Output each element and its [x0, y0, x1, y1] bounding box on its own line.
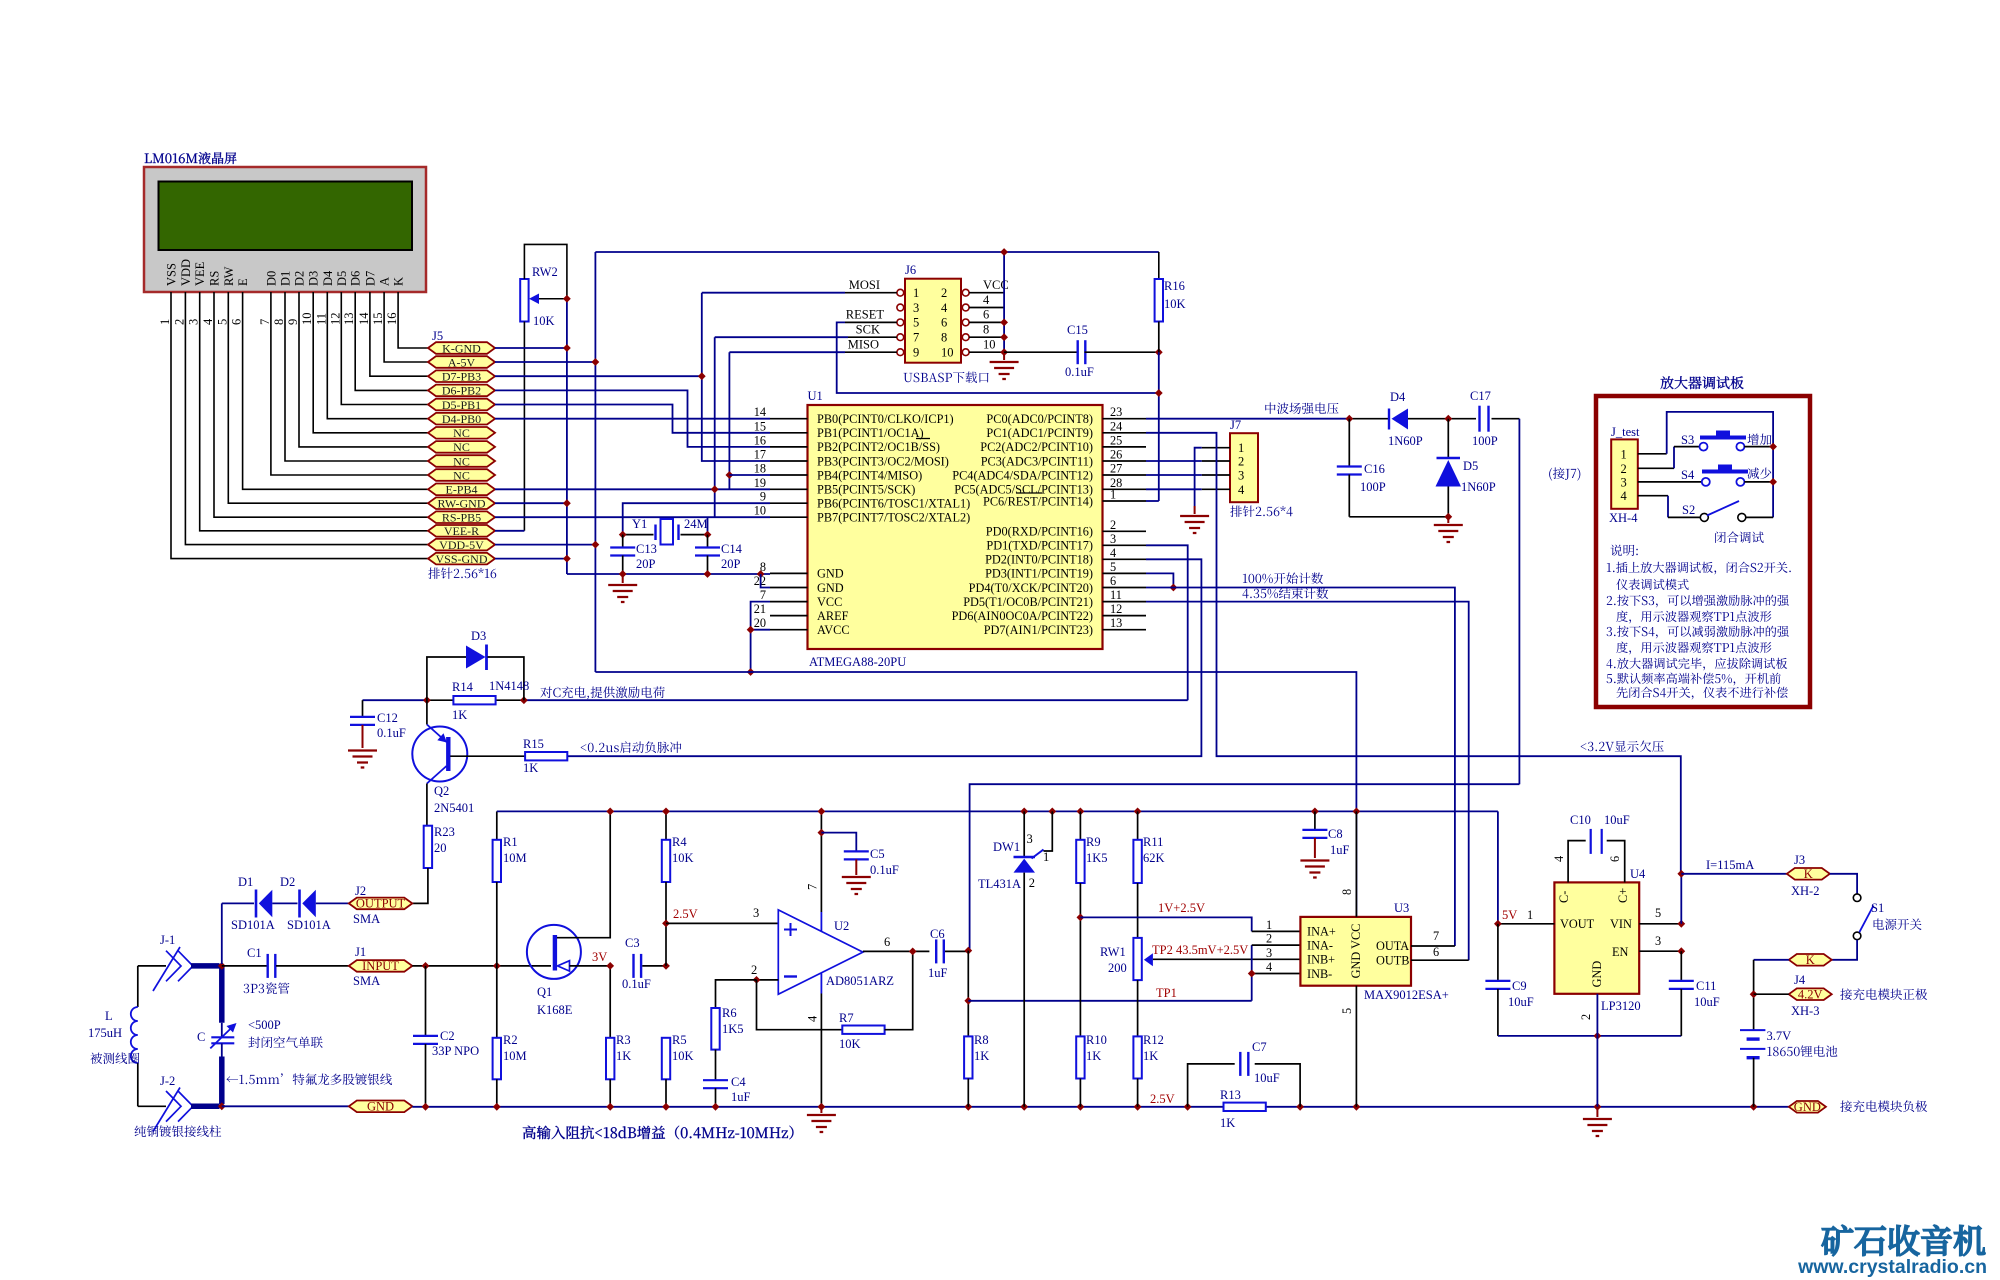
capacitor C1 3P3: [267, 954, 269, 978]
svg-text:9: 9: [913, 346, 919, 360]
wire D7-PB3 to U1 PB3 with MOSI vertical: [495, 375, 702, 377]
svg-text:PB1(PCINT1/OC1A): PB1(PCINT1/OC1A): [817, 426, 924, 440]
diode D4 1N60P: [1388, 409, 1390, 430]
wire U1 PB6 to crystal: [623, 503, 770, 534]
resistor R7 10K feedback: [757, 980, 843, 1030]
wire J_test pin2 to S3: [1638, 467, 1674, 469]
svg-text:D5-PB1: D5-PB1: [442, 398, 481, 412]
wire R16 bottom to PC6: [1158, 322, 1160, 353]
svg-text:4: 4: [941, 301, 948, 315]
capacitor C8 1uF: [1314, 811, 1316, 830]
ground under C5: [842, 877, 871, 894]
regulator U4 LP3120 box: [1554, 882, 1639, 993]
svg-text:MOSI: MOSI: [849, 278, 880, 292]
svg-text:K168E: K168E: [537, 1003, 573, 1017]
svg-text:AREF: AREF: [817, 609, 849, 623]
svg-text:2: 2: [1579, 1014, 1593, 1020]
svg-text:2: 2: [751, 963, 757, 977]
wire K to J4 node: [1754, 959, 1789, 961]
svg-text:TL431A: TL431A: [978, 877, 1021, 891]
wire PD2 pulse net to R15: [567, 559, 1201, 756]
capacitor C11 10uF: [1680, 951, 1682, 981]
svg-text:10M: 10M: [503, 1049, 527, 1063]
svg-text:RW1: RW1: [1100, 945, 1126, 959]
svg-text:26: 26: [1110, 448, 1122, 462]
svg-text:20: 20: [434, 841, 447, 855]
svg-text:DW1: DW1: [993, 840, 1020, 854]
resistor R10 1K: [1076, 1036, 1084, 1078]
svg-text:7: 7: [913, 331, 919, 345]
svg-text:NC: NC: [453, 468, 470, 482]
svg-text:5: 5: [913, 316, 919, 330]
svg-text:D6-PB2: D6-PB2: [442, 384, 481, 398]
wire INA-/INB- to TP1: [1251, 945, 1253, 1001]
svg-text:3: 3: [1655, 934, 1661, 948]
svg-text:D5: D5: [1463, 459, 1478, 473]
svg-text:INA+: INA+: [1307, 925, 1336, 939]
wire J5 RW-GND to GND vertical: [495, 502, 567, 504]
wire J6 MISO to PB4 vertical: [845, 351, 897, 353]
svg-text:15: 15: [371, 313, 385, 326]
Q2 emitter wire: [426, 700, 428, 724]
svg-text:0.1uF: 0.1uF: [1065, 365, 1094, 379]
svg-text:10: 10: [941, 346, 954, 360]
svg-text:2: 2: [1266, 932, 1272, 946]
svg-text:1: 1: [1266, 918, 1272, 932]
wire C16 D5 bottom to ground: [1349, 516, 1448, 518]
svg-text:R10: R10: [1086, 1033, 1107, 1047]
resistor R11 62K: [1137, 811, 1139, 839]
svg-text:C-: C-: [1557, 891, 1571, 903]
J5 pin RS-PB5: [428, 511, 495, 523]
svg-text:5V: 5V: [1502, 908, 1517, 922]
LCD module LM016M body: [144, 167, 426, 292]
svg-text:10K: 10K: [839, 1037, 861, 1051]
U2 output wire pin6: [863, 950, 930, 952]
svg-text:1: 1: [1043, 850, 1049, 864]
svg-text:1K: 1K: [1086, 1049, 1101, 1063]
svg-text:GND: GND: [1590, 961, 1604, 988]
J5 pin D6-PB2: [428, 385, 495, 397]
svg-text:SD101A: SD101A: [287, 918, 331, 932]
RW2 bottom wire to VEE-R: [523, 322, 525, 531]
connector J-1 binding post: [138, 965, 166, 967]
svg-text:K-GND: K-GND: [442, 341, 481, 355]
svg-text:D2: D2: [293, 271, 307, 286]
junction dots on 5V vertical: [592, 358, 600, 366]
U3 OUTA wire pin7: [1411, 945, 1455, 947]
svg-text:R9: R9: [1086, 835, 1101, 849]
capacitor C2 33P: [425, 966, 427, 1036]
svg-text:10K: 10K: [1164, 297, 1186, 311]
Q2 base wire to R15: [450, 755, 525, 757]
svg-text:24M: 24M: [684, 517, 708, 531]
variable capacitor C: [221, 1023, 223, 1038]
svg-text:R3: R3: [616, 1033, 631, 1047]
J5 pin D4-PB0: [428, 413, 495, 425]
svg-text:E-PB4: E-PB4: [445, 483, 477, 497]
svg-text:GND: GND: [1794, 1100, 1821, 1114]
svg-text:U1: U1: [808, 389, 823, 403]
ground symbol below op-amp: [820, 1107, 822, 1113]
svg-text:Q1: Q1: [537, 985, 552, 999]
comparator input node vertical x=968: [967, 951, 969, 1037]
svg-text:2.5V: 2.5V: [1150, 1092, 1175, 1106]
wire battery positive vertical: [1680, 874, 1682, 924]
ground under J7: [1180, 516, 1209, 533]
svg-text:NC: NC: [453, 426, 470, 440]
resistor R2 10M: [496, 966, 498, 1038]
svg-text:D1: D1: [279, 271, 293, 286]
J5 pin RW-GND: [428, 497, 495, 509]
svg-text:D4: D4: [1390, 390, 1406, 404]
U1 left pin stubs GND VCC AREF AVCC: [770, 572, 808, 574]
resistor R16: [1158, 252, 1160, 279]
J7 type label: [1230, 506, 1292, 517]
svg-text:14: 14: [357, 312, 371, 325]
U3 OUTB wire pin6: [1411, 959, 1469, 961]
svg-text:LP3120: LP3120: [1601, 999, 1641, 1013]
Q1 drain wire: [557, 811, 610, 937]
wire PD5 4.35%-count net to OUTB: [1146, 602, 1469, 961]
svg-text:K: K: [1804, 867, 1813, 881]
wire VCC horizontal y=672 to U3 VCC: [595, 672, 1356, 917]
vertical SCK/RS-PB5 x=714.7: [714, 337, 716, 517]
svg-text:10K: 10K: [672, 1049, 694, 1063]
svg-text:10uF: 10uF: [1694, 995, 1720, 1009]
svg-text:2: 2: [1238, 455, 1244, 469]
overline marks for SS and REST pin names: [916, 438, 930, 440]
svg-text:PD7(AIN1/PCINT23): PD7(AIN1/PCINT23): [984, 623, 1093, 637]
svg-text:0.1uF: 0.1uF: [622, 977, 651, 991]
svg-text:VOUT: VOUT: [1560, 917, 1595, 931]
ground under D5: [1434, 525, 1463, 542]
svg-text:RW2: RW2: [532, 265, 558, 279]
capacitor C17: [1478, 406, 1480, 432]
svg-text:0.1uF: 0.1uF: [870, 863, 899, 877]
wire J6 MOSI to PB3 vertical: [845, 292, 897, 294]
wire 5V rail y=811: [497, 810, 1498, 812]
wire 5V top rail to R16: [595, 251, 1158, 253]
resistor R23: [424, 826, 432, 868]
wire J5 K-GND to GND vertical: [495, 347, 567, 349]
svg-text:21: 21: [754, 602, 766, 616]
J5 pin VDD-5V: [428, 539, 495, 551]
wire crystal ground rail to U1 GND: [567, 573, 770, 575]
wire I=115mA to J3: [1681, 873, 1787, 875]
svg-text:1K: 1K: [616, 1049, 631, 1063]
resistor R6 1K5: [716, 980, 757, 1008]
svg-text:S4: S4: [1681, 468, 1695, 482]
svg-text:PC0(ADC0/PCINT8): PC0(ADC0/PCINT8): [986, 412, 1093, 426]
wire TP1 net: [968, 1000, 1251, 1002]
svg-text:8: 8: [1340, 889, 1354, 895]
svg-text:XH-4: XH-4: [1609, 511, 1638, 525]
svg-text:R4: R4: [672, 835, 687, 849]
svg-text:12: 12: [328, 313, 342, 326]
debug board instructions text: [1610, 545, 1637, 556]
svg-text:S1: S1: [1871, 901, 1884, 915]
svg-text:D3: D3: [471, 629, 486, 643]
svg-text:1N4148: 1N4148: [489, 679, 529, 693]
svg-text:2.5V: 2.5V: [673, 907, 698, 921]
svg-text:PD6(AIN0OC0A/PCINT22): PD6(AIN0OC0A/PCINT22): [952, 609, 1093, 623]
svg-text:4: 4: [806, 1015, 820, 1022]
svg-text:3V: 3V: [592, 950, 607, 964]
svg-text:3: 3: [913, 301, 919, 315]
svg-text:5: 5: [215, 319, 229, 325]
svg-text:R23: R23: [434, 825, 455, 839]
diode D3 1N4148: [427, 657, 466, 700]
crystal Y1: [654, 525, 656, 541]
svg-text:1K: 1K: [523, 761, 538, 775]
svg-text:RS: RS: [208, 271, 222, 286]
svg-text:OUTPUT: OUTPUT: [356, 897, 406, 911]
svg-text:10: 10: [300, 313, 314, 326]
svg-text:15: 15: [754, 419, 766, 433]
svg-text:MAX9012ESA+: MAX9012ESA+: [1364, 988, 1449, 1002]
wire E-PB4/PB5 row: [495, 488, 770, 490]
J6 title label: [904, 372, 989, 383]
ground under J6: [1003, 352, 1005, 360]
wire RW1 wiper to INB+: [1153, 958, 1301, 960]
svg-text:J-1: J-1: [160, 933, 175, 947]
svg-text:PB7(PCINT7/TOSC2/XTAL2): PB7(PCINT7/TOSC2/XTAL2): [817, 511, 970, 525]
svg-text:PC3(ADC3/PCINT11): PC3(ADC3/PCINT11): [981, 454, 1093, 468]
svg-text:2: 2: [1029, 876, 1035, 890]
svg-text:K: K: [392, 277, 406, 286]
svg-text:12: 12: [1110, 602, 1122, 616]
IC U1 ATMEGA88-20PU box: [808, 405, 1103, 649]
svg-text:1: 1: [1621, 447, 1627, 461]
svg-text:A: A: [378, 277, 392, 286]
wire U1 PB4 row: [729, 474, 770, 476]
svg-text:D2: D2: [280, 875, 295, 889]
capacitor C13: [622, 535, 624, 548]
svg-text:U3: U3: [1394, 901, 1409, 915]
ground under C12: [348, 751, 377, 768]
svg-text:D5: D5: [335, 271, 349, 286]
wire U4 ground bottom: [1498, 1035, 1681, 1037]
capacitor C7 10uF: [1188, 1064, 1235, 1107]
svg-text:MISO: MISO: [848, 338, 879, 352]
svg-text:10: 10: [754, 504, 766, 518]
svg-text:6: 6: [1608, 856, 1622, 862]
svg-text:U4: U4: [1630, 867, 1646, 881]
wire INPUT row: [222, 965, 267, 967]
svg-text:C9: C9: [1512, 979, 1527, 993]
pushbutton S4: [1702, 470, 1748, 474]
svg-text:PD1(TXD/PCINT17): PD1(TXD/PCINT17): [986, 539, 1093, 553]
gain note text: [523, 1126, 794, 1140]
wire 5V rail down to U4 VOUT: [1497, 811, 1499, 923]
svg-text:0.1uF: 0.1uF: [377, 726, 406, 740]
junction dots bottom rail: [422, 1103, 430, 1111]
capacitor C16: [1348, 419, 1350, 467]
svg-text:1K: 1K: [974, 1049, 989, 1063]
wire J6 SCK to PB5 vertical: [848, 336, 897, 338]
wire crystal node left: [623, 534, 654, 536]
wire PC1 battery-sense net: [1146, 433, 1681, 874]
svg-text:1K5: 1K5: [722, 1022, 744, 1036]
capacitor C5 0.1uF: [818, 829, 826, 837]
wire J6 VCC pins right vertical: [969, 292, 1004, 294]
svg-text:2: 2: [941, 286, 947, 300]
svg-text:1: 1: [1238, 441, 1244, 455]
svg-text:10K: 10K: [672, 851, 694, 865]
label link to J7: [1549, 467, 1580, 480]
svg-text:8: 8: [941, 331, 947, 345]
wire battery negative: [1753, 1058, 1755, 1107]
svg-text:4: 4: [1110, 546, 1116, 560]
svg-text:PB0(PCINT0/CLKO/ICP1): PB0(PCINT0/CLKO/ICP1): [817, 412, 954, 426]
Q2 collector wire: [427, 766, 447, 784]
svg-text:GND: GND: [817, 567, 844, 581]
svg-text:11: 11: [1110, 588, 1122, 602]
wire R23 to OUTPUT: [412, 868, 428, 903]
J5 pin D7-PB3: [428, 370, 495, 382]
svg-text:www.crystalradio.cn: www.crystalradio.cn: [1797, 1256, 1987, 1278]
U4 VIN pin5 wire: [1639, 923, 1681, 925]
svg-text:AVCC: AVCC: [817, 623, 850, 637]
potentiometer RW2: [520, 279, 528, 322]
svg-text:7: 7: [760, 588, 766, 602]
wire PD3 to PD4: [1146, 573, 1173, 587]
J7 pin stubs: [1202, 447, 1230, 449]
svg-text:2: 2: [172, 319, 186, 325]
svg-text:C17: C17: [1470, 389, 1491, 403]
capacitor C4 1uF: [703, 1079, 728, 1081]
connector GND battery negative: [1789, 1101, 1826, 1113]
svg-text:6: 6: [1110, 574, 1116, 588]
svg-text:J4: J4: [1794, 973, 1806, 987]
svg-text:16: 16: [385, 313, 399, 326]
svg-text:R2: R2: [503, 1033, 518, 1047]
resistor R14: [453, 696, 495, 704]
svg-text:100P: 100P: [1472, 434, 1498, 448]
wire GND net vertical from RW2 area to crystal ground rail: [566, 299, 568, 574]
svg-text:R6: R6: [722, 1006, 737, 1020]
U3 GND pin5 wire: [1355, 986, 1357, 1107]
svg-text:1uF: 1uF: [928, 966, 948, 980]
svg-text:D3: D3: [307, 271, 321, 286]
wire J3 to S1: [1830, 874, 1857, 894]
J5 pin A-5V: [428, 356, 495, 368]
wire D2 to J2: [316, 902, 349, 904]
J5 pin NC: [428, 469, 495, 481]
transistor Q1 K168E JFET: [527, 925, 581, 979]
svg-text:17: 17: [754, 448, 766, 462]
svg-text:J7: J7: [1230, 418, 1241, 432]
svg-text:PC1(ADC1/PCINT9): PC1(ADC1/PCINT9): [986, 426, 1093, 440]
svg-text:D1: D1: [238, 875, 253, 889]
svg-text:9: 9: [286, 319, 300, 325]
svg-text:PD4(T0/XCK/PCINT20): PD4(T0/XCK/PCINT20): [969, 581, 1093, 595]
svg-text:C10: C10: [1570, 813, 1591, 827]
Q1 gate arrow: [558, 961, 570, 971]
wire D6-PB2 to U1 PB2: [495, 390, 770, 447]
svg-text:J-2: J-2: [160, 1074, 175, 1088]
J5 pin NC: [428, 427, 495, 439]
svg-text:VEE-R: VEE-R: [444, 524, 479, 538]
wire PD1 charge-C net: [1146, 545, 1188, 700]
wire to D1: [221, 903, 223, 964]
resistor R9 1K5: [1079, 811, 1081, 839]
svg-text:1: 1: [913, 286, 919, 300]
wire J5 VDD-5V to 5V vertical: [495, 544, 595, 546]
svg-text:3: 3: [1621, 475, 1627, 489]
svg-text:U2: U2: [834, 919, 849, 933]
wire J6 RESET to R16 bottom: [845, 321, 897, 323]
debug board outer box: [1596, 396, 1810, 707]
J5 pin VEE-R: [428, 525, 495, 537]
svg-text:C15: C15: [1067, 323, 1088, 337]
svg-text:3: 3: [1027, 832, 1033, 846]
comparator U3 MAX9012 box: [1300, 917, 1411, 986]
wire coil feed label: [226, 1073, 392, 1085]
wires LCD pins to J5: [171, 292, 428, 559]
svg-text:J_test: J_test: [1611, 425, 1640, 439]
J6 pin circles: [897, 289, 904, 296]
svg-text:200: 200: [1108, 961, 1127, 975]
svg-text:I=115mA: I=115mA: [1706, 858, 1754, 872]
svg-text:3: 3: [753, 906, 759, 920]
svg-text:VDD: VDD: [179, 259, 193, 286]
shunt regulator DW1 TL431A: [1023, 811, 1025, 857]
wire D5-PB1 to U1 PB1: [495, 405, 770, 433]
potentiometer RW1 200: [1133, 938, 1141, 980]
svg-text:J1: J1: [355, 945, 366, 959]
wire J_test pin1 to switch rail: [1638, 453, 1667, 455]
wire PC0 mid-wave field strength net: [1146, 418, 1349, 420]
svg-text:175uH: 175uH: [88, 1026, 122, 1040]
capacitor C3 0.1uF: [632, 954, 634, 978]
U2 pin2 wire: [757, 979, 779, 981]
svg-text:D7: D7: [363, 271, 377, 286]
svg-text:S2: S2: [1682, 503, 1695, 517]
svg-text:NC: NC: [453, 454, 470, 468]
svg-text:1K: 1K: [1220, 1116, 1235, 1130]
svg-text:R15: R15: [523, 737, 544, 751]
connector GND left: [349, 1101, 413, 1113]
resistor R4 10K: [665, 811, 667, 839]
svg-text:8: 8: [983, 323, 989, 337]
U4 EN pin3 wire: [1639, 950, 1681, 952]
svg-text:9: 9: [760, 490, 766, 504]
svg-text:10uF: 10uF: [1604, 813, 1630, 827]
svg-text:D4: D4: [321, 270, 335, 286]
U1 right pin stubs PC0-PC6: [1103, 418, 1147, 420]
resistor R3 1K: [609, 966, 611, 1038]
svg-text:C5: C5: [870, 847, 885, 861]
wire U1 VCC/AVCC to 5V: [751, 602, 770, 672]
svg-text:OUTB: OUTB: [1376, 954, 1409, 968]
svg-text:RW-GND: RW-GND: [438, 497, 486, 511]
svg-text:33P NPO: 33P NPO: [432, 1044, 479, 1058]
thick wire input loop: [191, 963, 220, 969]
svg-text:S3: S3: [1681, 433, 1694, 447]
svg-text:R11: R11: [1143, 835, 1163, 849]
svg-text:R13: R13: [1220, 1088, 1241, 1102]
svg-text:6: 6: [230, 319, 244, 325]
svg-text:10uF: 10uF: [1254, 1071, 1280, 1085]
battery 18650 3.7V: [1740, 1029, 1765, 1031]
U1 left pin stubs and labels PB0-PB7: [770, 418, 808, 420]
svg-text:23: 23: [1110, 405, 1122, 419]
svg-text:XH-3: XH-3: [1791, 1004, 1819, 1018]
svg-text:27: 27: [1110, 462, 1122, 476]
resistor R15: [525, 752, 567, 760]
